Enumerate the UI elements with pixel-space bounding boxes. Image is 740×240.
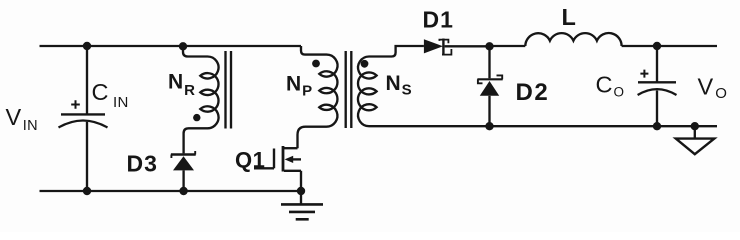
node N_R top junction bbox=[179, 42, 187, 50]
transformer core left bbox=[226, 51, 232, 129]
svg-text:Q1: Q1 bbox=[235, 148, 265, 173]
wire D2 top lead bbox=[488, 46, 490, 78]
wire top rail primary bbox=[40, 45, 302, 47]
wire C_IN top lead bbox=[86, 46, 88, 114]
wire N_S top lead step bbox=[369, 46, 424, 57]
node C_O top junction bbox=[653, 42, 661, 50]
node D1-D2-L junction bbox=[485, 42, 493, 50]
svg-text:D1: D1 bbox=[423, 7, 454, 33]
svg-text:D2: D2 bbox=[516, 79, 550, 106]
diode D3 bbox=[171, 151, 196, 191]
wire N_R bottom lead bbox=[184, 128, 208, 153]
wire L to output bbox=[622, 45, 717, 47]
winding N_R bbox=[200, 56, 218, 128]
node D2 bottom junction bbox=[485, 122, 493, 130]
winding N_S bbox=[358, 57, 377, 127]
node C_IN top junction bbox=[83, 42, 91, 50]
wire C_O top lead bbox=[656, 46, 658, 82]
wire N_R top stub bbox=[183, 46, 208, 56]
wire secondary bottom rail bbox=[369, 125, 717, 127]
diode D2 bbox=[477, 75, 502, 126]
wire N_P entry step bbox=[301, 46, 327, 55]
transformer core right bbox=[346, 51, 352, 128]
ground output bbox=[676, 126, 715, 154]
node Q1 source junction bbox=[297, 187, 305, 195]
wire N_P to Q1 drain bbox=[298, 127, 327, 149]
node D3 bottom junction bbox=[179, 187, 187, 195]
svg-text:NS: NS bbox=[386, 72, 412, 99]
inductor L bbox=[525, 33, 621, 46]
svg-text:CO: CO bbox=[596, 72, 625, 100]
wire junction to L bbox=[490, 45, 526, 47]
wire C_O bottom lead bbox=[656, 91, 658, 127]
diode D1 bbox=[424, 39, 490, 55]
winding N_P bbox=[319, 55, 337, 127]
ground Q1 source bbox=[281, 191, 323, 219]
svg-text:CIN: CIN bbox=[92, 79, 129, 111]
capacitor C_IN bbox=[59, 100, 108, 127]
svg-text:VIN: VIN bbox=[6, 104, 39, 134]
node N_R polarity dot bbox=[193, 114, 200, 121]
node N_P polarity dot bbox=[312, 60, 320, 68]
svg-text:D3: D3 bbox=[127, 151, 158, 177]
svg-text:VO: VO bbox=[698, 74, 728, 103]
transistor Q1 bbox=[254, 146, 301, 191]
capacitor C_O bbox=[638, 70, 677, 95]
svg-text:NR: NR bbox=[168, 71, 195, 99]
wire C_IN bottom lead bbox=[86, 122, 88, 191]
wire bottom rail primary bbox=[40, 190, 302, 192]
node output ground junction bbox=[691, 122, 699, 130]
svg-text:NP: NP bbox=[286, 72, 312, 99]
node N_S polarity dot bbox=[361, 60, 369, 68]
svg-text:L: L bbox=[562, 4, 577, 30]
node C_O bottom junction bbox=[653, 122, 661, 130]
node C_IN bottom junction bbox=[83, 187, 91, 195]
